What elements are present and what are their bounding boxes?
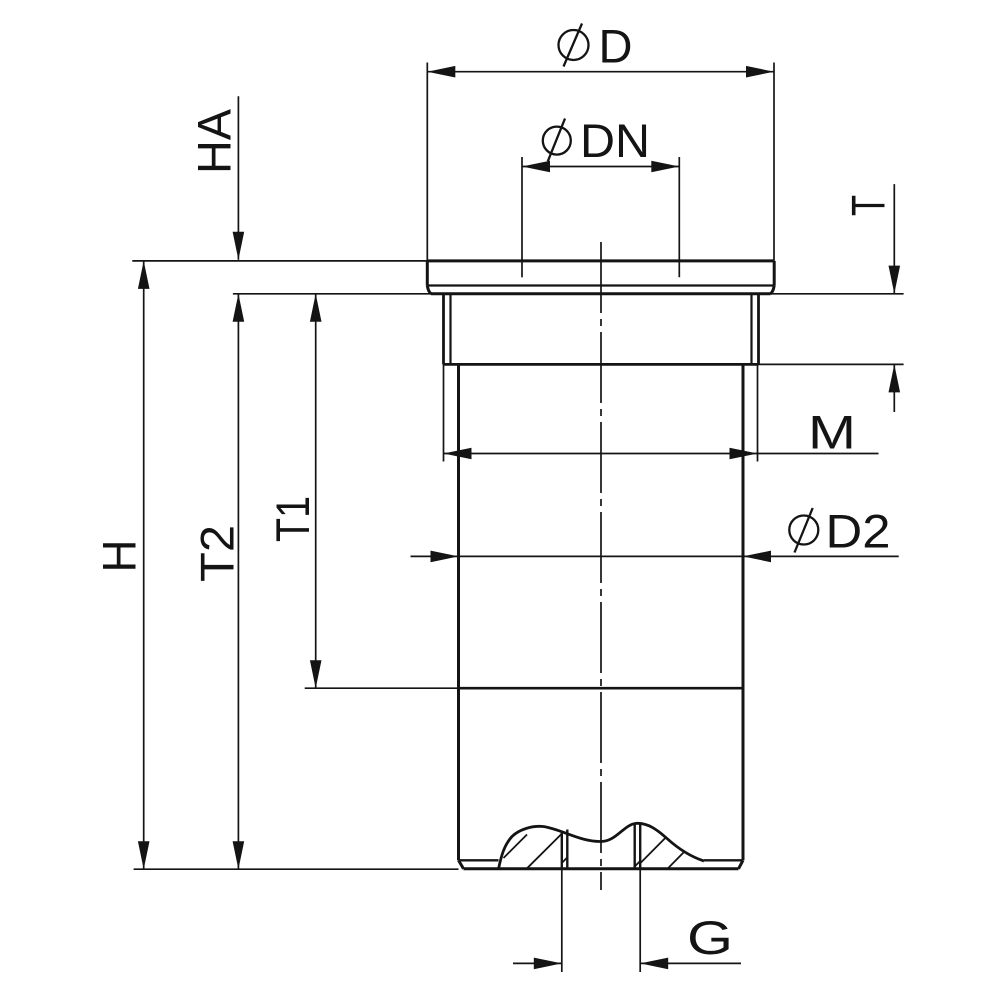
bottom chamfer edge line	[460, 859, 742, 861]
extension line body bottom left	[134, 868, 459, 870]
label diameter-D2	[789, 505, 890, 558]
centerline	[600, 242, 602, 890]
dimension D2: line and arrows	[411, 551, 899, 563]
dimension D: extension lines	[427, 63, 774, 261]
internal thread G lines	[562, 823, 640, 868]
dimension T: lines and arrows	[889, 184, 901, 412]
dimension H: line and arrows	[138, 261, 150, 869]
svg-text:T1: T1	[266, 496, 319, 542]
label diameter-D	[559, 20, 633, 73]
dimension HA: line and arrow	[233, 96, 245, 260]
dimension M: line and arrows	[444, 448, 879, 460]
dimension T2: line and arrows	[233, 294, 245, 869]
dimension G: extension lines	[562, 869, 640, 972]
wavy break line	[499, 823, 705, 869]
svg-text:T: T	[842, 195, 895, 216]
svg-text:H: H	[93, 540, 146, 573]
extension line flange bottom full	[233, 293, 904, 295]
svg-text:DN: DN	[580, 114, 650, 167]
dimension DN: line and arrows	[522, 161, 679, 173]
svg-text:D2: D2	[826, 505, 891, 558]
dimension M: extension lines	[444, 364, 758, 461]
internal bore bottom edge (T1 level)	[459, 687, 744, 690]
svg-text:T2: T2	[191, 525, 244, 582]
svg-text:G: G	[687, 911, 733, 964]
extension line flange top left	[132, 260, 427, 262]
neck thread minor lines	[451, 294, 752, 364]
dimension D: line and arrows	[427, 66, 774, 78]
neck (thread M) outline	[444, 294, 759, 364]
dimension T1: line and arrows	[310, 294, 322, 688]
dimension DN: extension lines	[522, 157, 679, 277]
svg-text:M: M	[808, 406, 856, 459]
flange chamfer edge line	[428, 284, 774, 286]
extension line T1 bottom left	[305, 687, 459, 689]
extension line neck bottom right	[759, 363, 904, 365]
hatching left	[504, 834, 568, 869]
label diameter-DN	[543, 114, 650, 167]
dimension G: line and arrows	[513, 958, 741, 970]
flange outline	[427, 261, 774, 294]
svg-text:D: D	[599, 20, 633, 73]
body outline	[459, 364, 744, 868]
svg-text:HA: HA	[188, 108, 241, 174]
hatching right	[635, 837, 685, 869]
